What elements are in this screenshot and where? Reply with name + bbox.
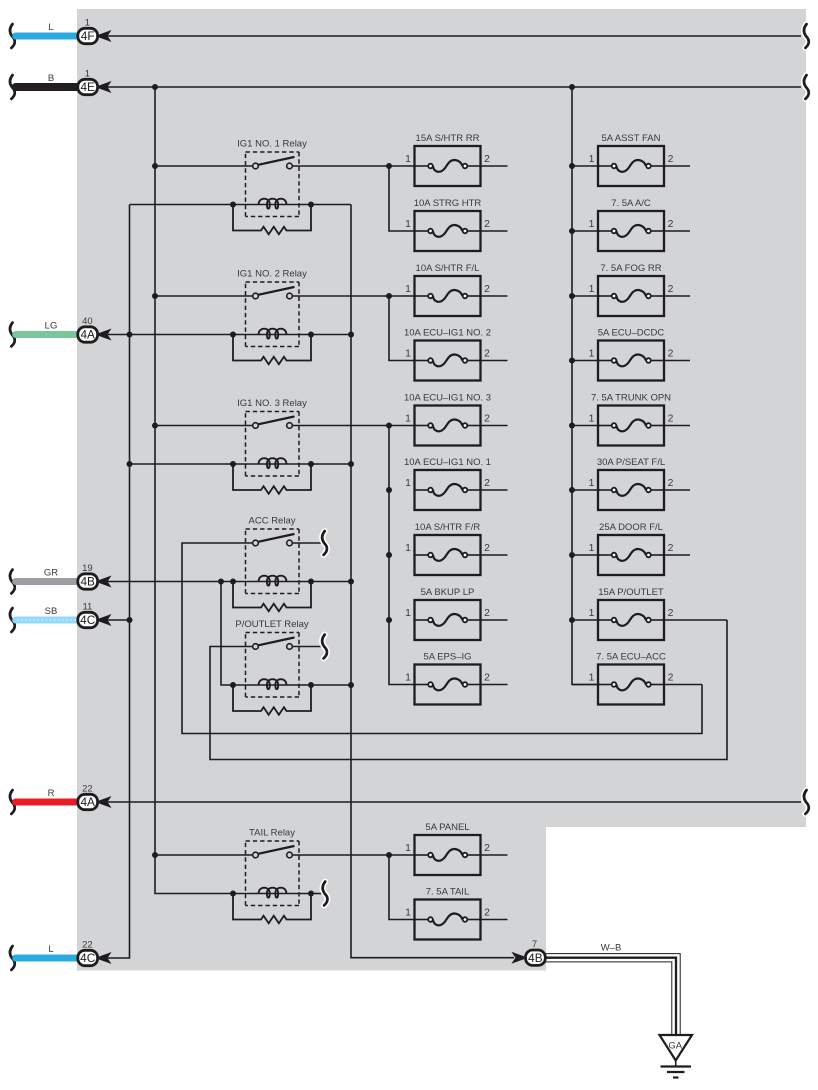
- bus x155 from row B down to TAIL relay coil: [155, 87, 233, 894]
- svg-text:2: 2: [484, 219, 490, 230]
- svg-text:5A ECU–DCDC: 5A ECU–DCDC: [598, 328, 665, 339]
- fuse 5A PANEL: [415, 835, 481, 875]
- wire break left GR: [10, 570, 15, 594]
- wire stub L: [16, 955, 79, 962]
- fuse 5A ECU–DCDC: [598, 341, 664, 381]
- svg-text:4E: 4E: [80, 80, 95, 94]
- svg-text:SB: SB: [45, 606, 58, 617]
- ground GA: [660, 1035, 693, 1061]
- svg-text:P/OUTLET Relay: P/OUTLET Relay: [235, 619, 308, 630]
- connector 4A pin 22 wire R: [10, 784, 110, 814]
- svg-text:R: R: [48, 788, 55, 799]
- wire stub SB: [16, 617, 79, 624]
- fuse 7. 5A FOG RR output wire: [664, 295, 690, 297]
- fuse 10A ECU–IG1 NO. 1 output wire: [481, 489, 508, 491]
- fuse 10A S/HTR F/R output wire: [481, 554, 508, 556]
- svg-text:2: 2: [484, 154, 490, 165]
- svg-text:10A ECU–IG1 NO. 3: 10A ECU–IG1 NO. 3: [404, 393, 491, 404]
- P/OUTLET relay switch input riser x210: [210, 620, 727, 760]
- oval 4E: [77, 78, 99, 96]
- fuse 30A P/SEAT F/L: [598, 470, 664, 510]
- svg-text:1: 1: [405, 908, 411, 919]
- fuse 10A STRG HTR: [415, 211, 481, 251]
- svg-text:25A DOOR F/L: 25A DOOR F/L: [599, 522, 663, 533]
- svg-text:10A ECU–IG1 NO. 1: 10A ECU–IG1 NO. 1: [404, 457, 491, 468]
- connector 4F pin 1 wire L: [10, 18, 110, 48]
- wire row GR (4B) = ACC coil feed: [107, 581, 233, 583]
- middle bus relay1 output to row2: [389, 166, 416, 231]
- svg-text:2: 2: [484, 673, 490, 684]
- relay IG1 NO.3 coil return: [311, 463, 351, 465]
- junctions middle bus: [386, 487, 392, 493]
- svg-text:5A EPS–IG: 5A EPS–IG: [423, 652, 471, 663]
- fuse 10A ECU–IG1 NO. 3: [415, 406, 481, 446]
- svg-text:IG1 NO. 3 Relay: IG1 NO. 3 Relay: [237, 398, 307, 409]
- svg-text:2: 2: [484, 414, 490, 425]
- right fuse input row3: [572, 295, 600, 297]
- relay IG1 NO.1 coil feed wire: [130, 204, 234, 206]
- fuse 7. 5A A/C output wire: [664, 230, 690, 232]
- fuse 15A S/HTR RR output wire: [481, 165, 508, 167]
- wire break right row B: [804, 75, 809, 99]
- relay IG1 NO.2 switch input: [155, 295, 253, 297]
- svg-text:ACC Relay: ACC Relay: [249, 516, 296, 527]
- P/OUTLET coil feed from ACC coil row: [221, 582, 233, 686]
- fuse 10A ECU–IG1 NO. 3 output wire: [481, 425, 508, 427]
- fuse 10A S/HTR F/L output wire: [481, 295, 508, 297]
- wire row B (4E) to right edge: [107, 86, 801, 88]
- svg-text:30A P/SEAT F/L: 30A P/SEAT F/L: [597, 457, 665, 468]
- junction block shaded background: [77, 9, 806, 971]
- relay IG1 NO.3 coil feed from bus x130: [130, 463, 234, 465]
- P/OUTLET coil return: [311, 684, 351, 686]
- svg-text:2: 2: [484, 908, 490, 919]
- wire break P/OUTLET output: [322, 635, 327, 659]
- right fuse input row5: [572, 425, 600, 427]
- svg-text:7. 5A FOG RR: 7. 5A FOG RR: [600, 263, 661, 274]
- wire stub GR: [16, 578, 79, 585]
- svg-text:7. 5A TAIL: 7. 5A TAIL: [426, 887, 469, 898]
- svg-text:1: 1: [589, 543, 595, 554]
- right fuse input row6: [572, 489, 600, 491]
- svg-text:GA: GA: [668, 1041, 682, 1052]
- connector 4E pin 1 wire B: [10, 69, 110, 99]
- svg-text:1: 1: [405, 608, 411, 619]
- TAIL relay switch output to PANEL fuse: [292, 854, 416, 856]
- wire row R (4A) to right edge: [107, 801, 801, 803]
- svg-text:TAIL Relay: TAIL Relay: [249, 828, 295, 839]
- relay IG1 NO. 3 Relay: [230, 412, 314, 494]
- svg-text:5A ASST FAN: 5A ASST FAN: [602, 133, 661, 144]
- arrow into 4C: [97, 954, 109, 963]
- arrow into 4C: [97, 616, 109, 625]
- svg-text:IG1 NO. 1 Relay: IG1 NO. 1 Relay: [237, 139, 307, 150]
- svg-text:1: 1: [405, 478, 411, 489]
- arrow into 4B: [97, 577, 109, 586]
- fuse 7. 5A A/C: [598, 211, 664, 251]
- right fuse input row1: [572, 165, 600, 167]
- wire break left SB: [10, 608, 15, 632]
- fuse 10A ECU–IG1 NO. 2 output wire: [481, 360, 508, 362]
- fuse 5A BKUP LP: [415, 600, 481, 640]
- right fuse input row7: [572, 554, 600, 556]
- TAIL relay coil output wire: [311, 893, 322, 895]
- fuse 10A ECU–IG1 NO. 2: [415, 341, 481, 381]
- wire stub B: [16, 83, 79, 91]
- oval 4A: [77, 326, 99, 344]
- svg-text:7. 5A ECU–ACC: 7. 5A ECU–ACC: [596, 652, 666, 663]
- svg-text:2: 2: [668, 154, 674, 165]
- middle bus relay2 output to row4: [389, 296, 416, 361]
- svg-text:7. 5A TRUNK OPN: 7. 5A TRUNK OPN: [591, 393, 671, 404]
- svg-text:7. 5A A/C: 7. 5A A/C: [611, 198, 651, 209]
- fuse 15A P/OUTLET output wire: [664, 619, 727, 621]
- connector 4B bottom: [524, 949, 546, 967]
- svg-text:2: 2: [668, 284, 674, 295]
- svg-text:4F: 4F: [81, 29, 95, 43]
- fuse 5A ECU–DCDC output wire: [664, 360, 690, 362]
- wire row SB (4C) to bus x130: [107, 619, 130, 621]
- wire break left R: [10, 790, 15, 814]
- svg-text:1: 1: [405, 673, 411, 684]
- wire break right row L: [804, 24, 809, 48]
- svg-text:1: 1: [589, 349, 595, 360]
- fuse 5A EPS–IG output wire: [481, 684, 508, 686]
- svg-text:1: 1: [589, 284, 595, 295]
- fuse 7. 5A ECU–ACC output wire: [664, 684, 702, 686]
- middle bus TAIL relay output to TAIL fuse: [389, 855, 416, 920]
- wire break TAIL coil: [323, 882, 328, 906]
- relay IG1 NO. 1 Relay: [230, 152, 314, 234]
- right fuse input row2: [572, 230, 600, 232]
- fuse 7. 5A FOG RR: [598, 276, 664, 316]
- svg-text:1: 1: [405, 414, 411, 425]
- wire stub LG: [16, 331, 79, 338]
- arrow into 4E: [97, 83, 109, 92]
- svg-text:10A S/HTR F/R: 10A S/HTR F/R: [415, 522, 481, 533]
- svg-text:1: 1: [405, 543, 411, 554]
- fuse 30A P/SEAT F/L output wire: [664, 489, 690, 491]
- fuse 10A STRG HTR output wire: [481, 230, 508, 232]
- svg-text:5A BKUP LP: 5A BKUP LP: [421, 587, 475, 598]
- svg-text:1: 1: [405, 284, 411, 295]
- svg-text:1: 1: [405, 219, 411, 230]
- svg-text:4C: 4C: [80, 951, 96, 965]
- wire break ACC output: [322, 531, 327, 555]
- svg-text:2: 2: [484, 478, 490, 489]
- fuse 5A PANEL output wire: [481, 854, 508, 856]
- right fuse input row4: [572, 360, 600, 362]
- arrow into 4F: [97, 32, 109, 41]
- relay IG1 NO.2 coil return: [311, 334, 351, 336]
- svg-text:2: 2: [484, 843, 490, 854]
- svg-text:LG: LG: [45, 321, 58, 332]
- middle bus relay3 output rows5-9: [389, 426, 416, 685]
- svg-text:2: 2: [668, 414, 674, 425]
- svg-text:1: 1: [405, 843, 411, 854]
- svg-text:W–B: W–B: [601, 943, 622, 954]
- fuse 7. 5A TRUNK OPN output wire: [664, 425, 690, 427]
- connector 4C pin 11 wire SB: [10, 602, 110, 632]
- right fuse bus x572 from row B: [572, 87, 600, 685]
- svg-text:1: 1: [589, 608, 595, 619]
- fuse 15A S/HTR RR: [415, 146, 481, 186]
- fuse 7. 5A TAIL: [415, 900, 481, 940]
- svg-text:1: 1: [589, 219, 595, 230]
- relay IG1 NO.1 coil return wire: [311, 204, 351, 206]
- svg-text:4A: 4A: [80, 328, 95, 342]
- svg-text:GR: GR: [44, 568, 58, 579]
- fuse 25A DOOR F/L output wire: [664, 554, 690, 556]
- relay IG1 NO.3 switch input: [155, 425, 253, 427]
- wire break left B: [10, 75, 15, 99]
- relay ACC Relay: [230, 529, 314, 611]
- wire break left LG: [10, 323, 15, 347]
- wire stub R: [16, 799, 79, 806]
- relay IG1 NO. 2 Relay: [230, 282, 314, 364]
- relay P/OUTLET Relay: [230, 633, 314, 715]
- arrow into 4A: [97, 798, 109, 807]
- svg-text:L: L: [48, 22, 53, 33]
- arrow into 4A: [97, 330, 109, 339]
- connector 4A pin 40 wire LG: [10, 316, 110, 346]
- svg-text:1: 1: [589, 478, 595, 489]
- svg-text:2: 2: [668, 219, 674, 230]
- svg-text:4B: 4B: [80, 575, 95, 589]
- svg-text:7: 7: [532, 939, 537, 950]
- svg-text:1: 1: [405, 154, 411, 165]
- oval 4C: [77, 949, 99, 967]
- svg-text:10A S/HTR F/L: 10A S/HTR F/L: [416, 263, 480, 274]
- fuse 10A S/HTR F/R: [415, 535, 481, 575]
- svg-text:2: 2: [484, 284, 490, 295]
- wire break left L: [10, 24, 15, 48]
- relay IG1 NO.1 switch input from bus x155: [155, 165, 253, 167]
- P/OUTLET relay switch output: [292, 646, 322, 648]
- wire break right row R: [804, 790, 809, 814]
- fuse 15A P/OUTLET: [598, 600, 664, 640]
- svg-text:2: 2: [484, 543, 490, 554]
- svg-text:L: L: [48, 944, 53, 955]
- svg-text:15A S/HTR RR: 15A S/HTR RR: [416, 133, 480, 144]
- bus x130 from relay1 coil to connector 4C bottom: [107, 205, 130, 959]
- TAIL relay switch input: [155, 854, 253, 856]
- svg-text:1: 1: [405, 349, 411, 360]
- bus x351 coil return to connector 4B: [351, 205, 514, 958]
- svg-text:5A PANEL: 5A PANEL: [425, 822, 469, 833]
- fuse 5A ASST FAN output wire: [664, 165, 690, 167]
- arrow into connector 4B: [513, 953, 525, 962]
- svg-text:4B: 4B: [528, 951, 543, 965]
- svg-text:10A STRG HTR: 10A STRG HTR: [414, 198, 482, 209]
- wire row L (4F) to right edge: [107, 35, 801, 37]
- svg-text:2: 2: [668, 349, 674, 360]
- svg-text:2: 2: [484, 608, 490, 619]
- svg-text:1: 1: [589, 673, 595, 684]
- svg-text:10A ECU–IG1 NO. 2: 10A ECU–IG1 NO. 2: [404, 328, 491, 339]
- svg-text:2: 2: [668, 673, 674, 684]
- connector 4C pin 22 wire L: [10, 940, 110, 970]
- svg-text:2: 2: [668, 608, 674, 619]
- fuse 5A BKUP LP output wire: [481, 619, 508, 621]
- svg-text:15A P/OUTLET: 15A P/OUTLET: [598, 587, 664, 598]
- svg-text:2: 2: [668, 543, 674, 554]
- svg-text:B: B: [48, 73, 54, 84]
- fuse 25A DOOR F/L: [598, 535, 664, 575]
- wire break left L: [10, 946, 15, 970]
- wire W-B to ground: [546, 954, 681, 1035]
- svg-text:4C: 4C: [80, 613, 96, 627]
- fuse 7. 5A ECU–ACC: [598, 665, 664, 705]
- svg-text:2: 2: [484, 349, 490, 360]
- svg-text:1: 1: [589, 414, 595, 425]
- fuse 7. 5A TRUNK OPN: [598, 406, 664, 446]
- relay IG1 NO.1 switch output to fuse row1: [292, 165, 416, 167]
- svg-text:2: 2: [668, 478, 674, 489]
- fuse 7. 5A TAIL output wire: [481, 919, 508, 921]
- relay IG1 NO.2 switch output to fuse row3: [292, 295, 416, 297]
- ACC relay switch input riser x182: [182, 543, 702, 734]
- svg-text:4A: 4A: [80, 795, 95, 809]
- relay TAIL Relay: [230, 841, 314, 923]
- wire row LG (4A) = relay2 coil feed: [107, 334, 233, 336]
- fuse 5A EPS–IG: [415, 665, 481, 705]
- fuse 10A S/HTR F/L: [415, 276, 481, 316]
- ACC coil return: [311, 581, 351, 583]
- fuse 10A ECU–IG1 NO. 1: [415, 470, 481, 510]
- right fuse input row9: [572, 684, 600, 686]
- fuse 5A ASST FAN: [598, 146, 664, 186]
- oval 4F: [77, 27, 99, 45]
- ACC relay switch output: [292, 542, 322, 544]
- oval 4B: [77, 573, 99, 591]
- oval 4A: [77, 793, 99, 811]
- svg-text:1: 1: [589, 154, 595, 165]
- oval 4C: [77, 611, 99, 629]
- right fuse input row8: [572, 619, 600, 621]
- svg-text:IG1 NO. 2 Relay: IG1 NO. 2 Relay: [237, 269, 307, 280]
- connector 4B pin 19 wire GR: [10, 563, 110, 593]
- wire stub L: [16, 33, 79, 40]
- relay IG1 NO.3 switch output to fuse row5: [292, 425, 416, 427]
